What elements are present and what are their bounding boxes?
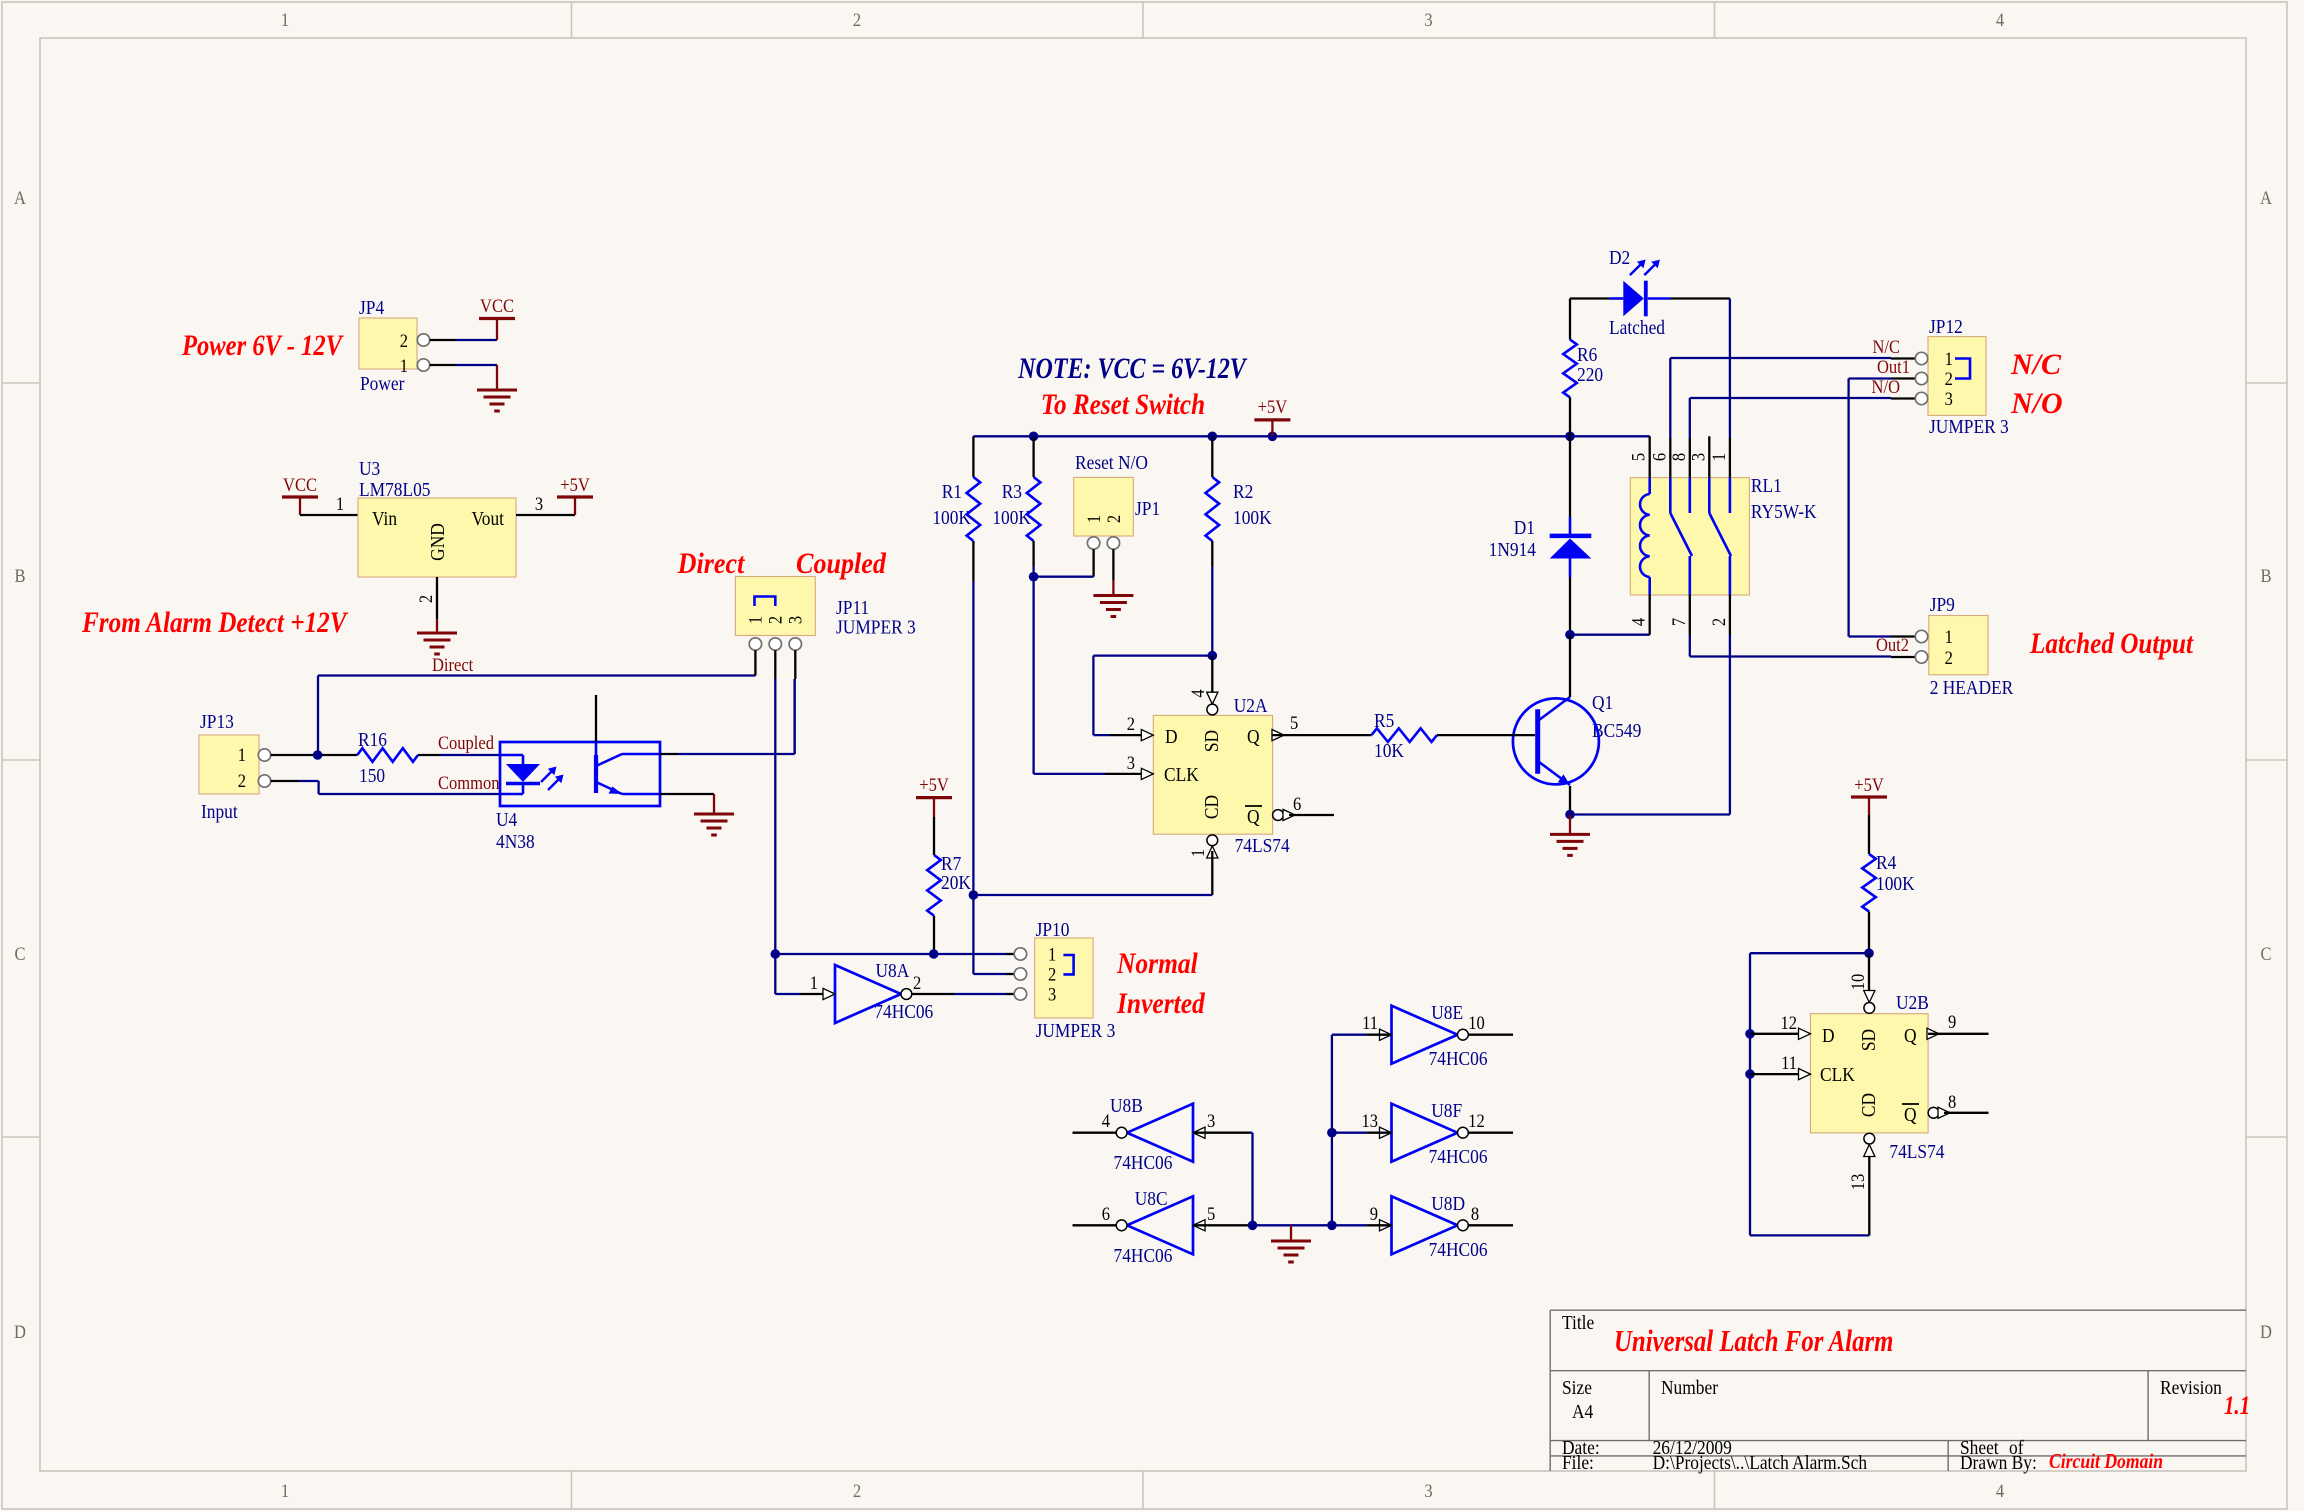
wire U8B output stub: [1073, 1132, 1116, 1134]
wire U2A Q to R5: [1273, 734, 1372, 736]
wire JP4.2 to VCC: [430, 339, 456, 341]
svg-text:7: 7: [1668, 618, 1689, 626]
svg-text:2: 2: [1048, 963, 1056, 984]
wire net N/C: [1669, 358, 1671, 438]
wire U8F output stub: [1468, 1132, 1513, 1134]
svg-text:Size: Size: [1562, 1377, 1592, 1399]
svg-text:R4: R4: [1876, 852, 1897, 874]
svg-text:1: 1: [1048, 943, 1056, 964]
svg-text:D: D: [1822, 1025, 1835, 1047]
ground at U3: [436, 619, 438, 633]
svg-text:74HC06: 74HC06: [1114, 1245, 1173, 1267]
svg-text:U2A: U2A: [1234, 695, 1268, 717]
svg-text:JUMPER 3: JUMPER 3: [1036, 1020, 1116, 1042]
svg-text:3: 3: [1424, 9, 1432, 30]
wire JP13.2 net Common: [271, 780, 299, 782]
pin 6 stub of U4: [595, 695, 597, 742]
svg-text:Reset N/O: Reset N/O: [1075, 452, 1148, 474]
svg-text:U8F: U8F: [1431, 1100, 1462, 1122]
junction: [1327, 1128, 1337, 1138]
junction: [1208, 651, 1218, 661]
svg-text:Coupled: Coupled: [438, 732, 494, 753]
svg-text:Q1: Q1: [1592, 692, 1613, 714]
svg-text:11: 11: [1362, 1012, 1378, 1033]
svg-text:74LS74: 74LS74: [1889, 1141, 1945, 1163]
wire net N/O: [1689, 398, 1691, 438]
svg-text:JUMPER 3: JUMPER 3: [836, 616, 916, 638]
svg-text:3: 3: [1945, 388, 1953, 409]
wire Q1 emitter to ground: [1569, 786, 1571, 815]
connector JP13: [199, 735, 259, 794]
svg-text:220: 220: [1577, 364, 1603, 386]
svg-text:CD: CD: [1201, 795, 1223, 819]
wire JP11.1 to Direct: [754, 650, 756, 675]
svg-text:B: B: [14, 565, 25, 586]
svg-text:13: 13: [1361, 1110, 1378, 1131]
svg-text:3: 3: [1048, 983, 1056, 1004]
svg-text:1: 1: [281, 1480, 289, 1501]
junction: [1327, 1221, 1337, 1231]
svg-text:6: 6: [1293, 793, 1301, 814]
wire JP13.1 to R16: [271, 754, 358, 756]
ground at Q1: [1569, 815, 1571, 835]
svg-text:Drawn By:: Drawn By:: [1960, 1452, 2037, 1474]
svg-text:10K: 10K: [1374, 740, 1404, 762]
svg-text:74HC06: 74HC06: [1114, 1152, 1173, 1174]
ground: [496, 365, 498, 390]
svg-text:100K: 100K: [992, 507, 1031, 529]
svg-text:4: 4: [1628, 618, 1649, 626]
svg-text:2: 2: [238, 770, 246, 791]
svg-text:2: 2: [1103, 515, 1124, 523]
wire Q1 collector: [1569, 635, 1571, 697]
junction: [1745, 1069, 1755, 1079]
svg-text:Title: Title: [1562, 1312, 1594, 1334]
svg-text:3: 3: [784, 616, 805, 624]
wire SD loop to D: [1093, 654, 1212, 656]
wire JP11.3 down: [794, 650, 796, 679]
wire JP11.2 down: [774, 650, 776, 679]
wire JP1.1 to R3: [1092, 549, 1094, 577]
wire U8D output stub: [1468, 1224, 1513, 1226]
svg-text:150: 150: [359, 765, 385, 787]
svg-text:R1: R1: [942, 481, 962, 503]
wire SD pin 4: [1211, 656, 1213, 694]
svg-text:20K: 20K: [941, 872, 971, 894]
svg-text:CLK: CLK: [1820, 1064, 1855, 1086]
junction: [1864, 948, 1874, 958]
svg-text:D: D: [2260, 1321, 2272, 1342]
svg-text:5: 5: [1290, 712, 1298, 733]
svg-text:A4: A4: [1572, 1401, 1594, 1423]
svg-text:GND: GND: [427, 523, 449, 561]
junction: [771, 949, 781, 959]
svg-text:4: 4: [1996, 1480, 2004, 1501]
svg-text:3: 3: [1127, 752, 1135, 773]
svg-text:JP13: JP13: [200, 711, 234, 733]
svg-text:JP9: JP9: [1930, 594, 1955, 616]
wire R3 to CLK: [1032, 566, 1034, 774]
svg-text:D2: D2: [1609, 247, 1630, 269]
svg-text:JUMPER 3: JUMPER 3: [1929, 416, 2009, 438]
svg-text:C: C: [2260, 943, 2271, 964]
wire JP1.2 to ground: [1112, 549, 1114, 580]
junction: [1565, 630, 1575, 640]
svg-text:2: 2: [1127, 713, 1135, 734]
svg-text:JP4: JP4: [359, 297, 385, 319]
junction: [1565, 810, 1575, 820]
svg-text:Out2: Out2: [1876, 634, 1909, 655]
wire D2 to relay pin 1: [1671, 297, 1730, 299]
svg-text:Out1: Out1: [1877, 356, 1910, 377]
wire to U8E/U8F inputs: [1331, 1035, 1333, 1226]
wire net Direct: [317, 676, 319, 756]
svg-text:5: 5: [1628, 453, 1649, 461]
wire R4 to U2B SD: [1868, 953, 1870, 994]
svg-text:Power 6V - 12V: Power 6V - 12V: [181, 329, 344, 362]
svg-text:RY5W-K: RY5W-K: [1751, 501, 1817, 523]
wire Inverted net: [775, 953, 1006, 955]
svg-text:Power: Power: [360, 373, 405, 395]
svg-text:N/O: N/O: [2010, 387, 2063, 420]
svg-text:B: B: [2260, 565, 2271, 586]
svg-text:R2: R2: [1233, 481, 1253, 503]
svg-text:VCC: VCC: [283, 474, 317, 495]
svg-text:2: 2: [1708, 618, 1729, 626]
svg-text:Q: Q: [1904, 1025, 1917, 1047]
svg-text:Coupled: Coupled: [796, 547, 887, 580]
svg-text:11: 11: [1781, 1052, 1797, 1073]
svg-text:1: 1: [744, 616, 765, 624]
wire JP4.1 to GND: [430, 364, 456, 366]
junction: [1208, 432, 1218, 442]
wire +5V bus: [973, 435, 1649, 437]
wire U8A output to JP10.3: [912, 993, 954, 995]
junction: [1745, 1029, 1755, 1039]
svg-text:1: 1: [281, 9, 289, 30]
wire U8C input / ground bus: [1193, 1224, 1250, 1226]
svg-text:C: C: [14, 943, 25, 964]
svg-text:4N38: 4N38: [496, 831, 535, 853]
junction: [929, 949, 939, 959]
svg-text:JP1: JP1: [1135, 498, 1160, 520]
svg-text:1: 1: [810, 972, 818, 993]
svg-text:74HC06: 74HC06: [1429, 1146, 1488, 1168]
svg-text:5: 5: [1207, 1203, 1215, 1224]
svg-text:N/C: N/C: [2010, 348, 2062, 381]
svg-text:R3: R3: [1002, 481, 1022, 503]
svg-text:8: 8: [1948, 1091, 1956, 1112]
svg-text:12: 12: [1780, 1012, 1797, 1033]
svg-text:U8E: U8E: [1431, 1002, 1463, 1024]
svg-text:2: 2: [764, 616, 785, 624]
svg-text:File:: File:: [1562, 1452, 1594, 1474]
svg-text:4: 4: [1996, 9, 2004, 30]
svg-text:8: 8: [1668, 453, 1689, 461]
wire R5 to Q1 base: [1437, 734, 1512, 736]
svg-text:4: 4: [1102, 1110, 1110, 1131]
svg-text:2: 2: [415, 595, 436, 603]
svg-text:74HC06: 74HC06: [1429, 1239, 1488, 1261]
ground at gate inputs: [1290, 1225, 1292, 1241]
svg-text:U2B: U2B: [1896, 992, 1929, 1014]
svg-text:1: 1: [400, 355, 408, 376]
wire R1 to JP10.2: [972, 581, 974, 974]
title block: [1550, 1309, 2246, 1311]
wire CD pin 1: [1211, 851, 1213, 895]
svg-text:12: 12: [1468, 1110, 1485, 1131]
ground at JP1: [1112, 580, 1114, 596]
svg-text:Input: Input: [201, 801, 238, 823]
ground at U4: [713, 794, 715, 814]
svg-text:+5V: +5V: [1258, 396, 1288, 417]
svg-text:1: 1: [336, 493, 344, 514]
svg-text:Vout: Vout: [471, 508, 504, 530]
svg-text:Common: Common: [438, 772, 500, 793]
wire U2B Q stub: [1928, 1033, 1988, 1035]
svg-text:9: 9: [1948, 1011, 1956, 1032]
svg-text:Direct: Direct: [677, 547, 746, 580]
svg-text:9: 9: [1370, 1203, 1378, 1224]
svg-text:CLK: CLK: [1164, 764, 1199, 786]
junction: [313, 750, 323, 760]
svg-text:U8B: U8B: [1110, 1095, 1143, 1117]
svg-text:From Alarm Detect +12V: From Alarm Detect +12V: [81, 605, 349, 639]
svg-text:10: 10: [1468, 1012, 1485, 1033]
svg-text:VCC: VCC: [480, 295, 514, 316]
svg-text:Normal: Normal: [1116, 947, 1198, 980]
svg-text:Q: Q: [1247, 806, 1260, 828]
svg-text:RL1: RL1: [1751, 475, 1782, 497]
svg-text:3: 3: [1687, 453, 1708, 461]
svg-text:Latched Output: Latched Output: [2029, 626, 2194, 660]
svg-text:6: 6: [1648, 453, 1669, 461]
svg-text:D: D: [14, 1321, 26, 1342]
svg-text:3: 3: [535, 493, 543, 514]
svg-text:+5V: +5V: [560, 474, 590, 495]
wire net Coupled: [418, 754, 440, 756]
svg-text:100K: 100K: [932, 507, 971, 529]
svg-text:4: 4: [1187, 689, 1208, 697]
svg-text:SD: SD: [1858, 1029, 1880, 1051]
svg-text:Direct: Direct: [432, 654, 473, 675]
svg-text:CD: CD: [1858, 1093, 1880, 1117]
svg-text:2: 2: [853, 1480, 861, 1501]
svg-text:N/C: N/C: [1872, 336, 1900, 357]
svg-text:100K: 100K: [1876, 873, 1915, 895]
wire U2B CLK: [1750, 1073, 1811, 1075]
junction: [1029, 432, 1039, 442]
connector JP11: [735, 577, 815, 636]
wire U2A Q-bar stub: [1289, 814, 1334, 816]
svg-text:SD: SD: [1201, 730, 1223, 752]
svg-text:JP12: JP12: [1929, 316, 1963, 338]
wire U8B input: [1193, 1132, 1250, 1134]
wire net Out2: [1689, 635, 1691, 657]
svg-text:+5V: +5V: [919, 774, 949, 795]
svg-text:D:\Projects\..\Latch Alarm.Sch: D:\Projects\..\Latch Alarm.Sch: [1653, 1452, 1868, 1474]
svg-text:74LS74: 74LS74: [1235, 835, 1291, 857]
svg-text:2 HEADER: 2 HEADER: [1930, 677, 2014, 699]
svg-text:10: 10: [1847, 974, 1868, 991]
wire relay pin 4 return: [1570, 634, 1650, 636]
junction: [1268, 432, 1278, 442]
svg-text:1: 1: [1083, 515, 1104, 523]
svg-text:Revision: Revision: [2160, 1377, 2222, 1399]
junction: [1248, 1221, 1258, 1231]
relay RL1 RY5W-K: [1630, 478, 1749, 595]
svg-text:D1: D1: [1514, 517, 1535, 539]
svg-text:100K: 100K: [1233, 507, 1272, 529]
junction: [1029, 572, 1039, 582]
svg-text:Universal Latch For Alarm: Universal Latch For Alarm: [1614, 1324, 1893, 1358]
wire U4 emitter to ground: [660, 793, 714, 795]
wire U2B Q-bar stub: [1944, 1112, 1989, 1114]
svg-text:Latched: Latched: [1609, 317, 1666, 339]
wire relay pin 2 to emitter junction: [1729, 635, 1731, 815]
svg-text:+5V: +5V: [1854, 774, 1884, 795]
wire U8E output stub: [1468, 1034, 1513, 1036]
svg-text:74HC06: 74HC06: [1429, 1048, 1488, 1070]
svg-text:Q: Q: [1247, 726, 1260, 748]
svg-text:U8D: U8D: [1431, 1193, 1465, 1215]
svg-text:Q: Q: [1904, 1104, 1917, 1126]
svg-text:Vin: Vin: [372, 508, 398, 530]
svg-text:NOTE: VCC = 6V-12V: NOTE: VCC = 6V-12V: [1017, 351, 1247, 384]
svg-text:Inverted: Inverted: [1116, 987, 1206, 1020]
svg-text:13: 13: [1847, 1174, 1868, 1191]
svg-text:2: 2: [1945, 368, 1953, 389]
wire U2B D: [1750, 1033, 1811, 1035]
svg-text:1: 1: [1708, 453, 1729, 461]
svg-text:Number: Number: [1661, 1377, 1719, 1399]
wire U4 collector to JP11.3: [660, 753, 678, 755]
svg-text:U3: U3: [359, 458, 380, 480]
svg-text:2: 2: [913, 972, 921, 993]
wire to U8A input: [774, 954, 776, 994]
wire U2B feedback loop: [1750, 952, 1869, 954]
svg-text:A: A: [2260, 187, 2272, 208]
svg-text:1: 1: [1945, 626, 1953, 647]
wire R2 to SD: [1211, 566, 1213, 656]
svg-text:A: A: [14, 187, 26, 208]
svg-text:1: 1: [238, 744, 246, 765]
svg-text:U8A: U8A: [876, 960, 910, 982]
svg-text:2: 2: [853, 9, 861, 30]
wire U8C output stub: [1073, 1224, 1116, 1226]
svg-text:8: 8: [1471, 1203, 1479, 1224]
svg-text:1: 1: [1187, 849, 1208, 857]
svg-text:2: 2: [400, 330, 408, 351]
svg-text:To Reset Switch: To Reset Switch: [1041, 387, 1205, 421]
junction: [969, 890, 979, 900]
svg-text:U4: U4: [496, 809, 518, 831]
wire net Out1: [1891, 377, 1915, 379]
junction: [1565, 432, 1575, 442]
optocoupler U4 4N38: [500, 742, 660, 806]
svg-text:1: 1: [1945, 348, 1953, 369]
svg-text:74HC06: 74HC06: [874, 1001, 933, 1023]
svg-text:2: 2: [1945, 647, 1953, 668]
svg-text:3: 3: [1207, 1110, 1215, 1131]
svg-text:3: 3: [1424, 1480, 1432, 1501]
svg-text:D: D: [1165, 726, 1178, 748]
svg-text:U8C: U8C: [1135, 1188, 1168, 1210]
svg-text:1N914: 1N914: [1489, 539, 1537, 561]
svg-text:1.1: 1.1: [2224, 1392, 2250, 1421]
svg-text:Circuit Domain: Circuit Domain: [2049, 1451, 2163, 1474]
svg-text:6: 6: [1102, 1203, 1110, 1224]
connector JP4: [359, 318, 417, 369]
